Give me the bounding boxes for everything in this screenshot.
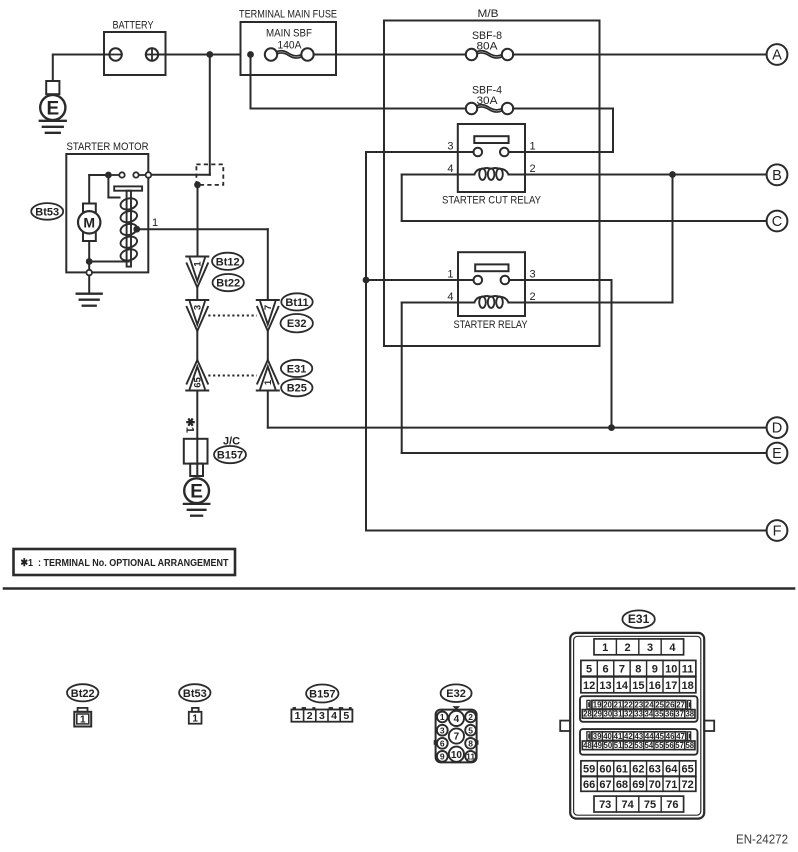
node connector F (767, 520, 788, 541)
svg-text:30: 30 (604, 710, 613, 719)
svg-text:15: 15 (632, 680, 644, 692)
M/B fuse box (384, 8, 600, 346)
svg-text:67: 67 (599, 779, 611, 791)
wire battery junction down to starter motor switch (152, 55, 210, 175)
svg-text:✱1 : TERMINAL No. OPTIONAL AR: ✱1 : TERMINAL No. OPTIONAL ARRANGEMENT (21, 557, 229, 569)
svg-text:51: 51 (614, 741, 623, 750)
wire starter relay pin 3 down to D line (509, 280, 611, 428)
svg-text:70: 70 (649, 779, 661, 791)
svg-text:52: 52 (624, 741, 633, 750)
svg-text:TERMINAL MAIN FUSE: TERMINAL MAIN FUSE (239, 9, 337, 21)
svg-text:5: 5 (343, 710, 349, 722)
svg-text:MAIN SBF: MAIN SBF (266, 28, 312, 40)
svg-text:6: 6 (440, 739, 445, 749)
label *1 rotated (184, 418, 196, 433)
node D branch (608, 424, 615, 431)
junction connector J/C B157 (184, 439, 208, 476)
svg-text:58: 58 (685, 741, 694, 750)
svg-text:3: 3 (447, 141, 453, 153)
svg-text:20: 20 (603, 701, 612, 710)
wire vertical bus down to connector F (365, 152, 367, 531)
node B branch (669, 171, 676, 178)
node connector E (767, 443, 788, 464)
svg-text:2: 2 (468, 712, 473, 722)
connector view Bt22 (67, 684, 98, 726)
svg-text:3: 3 (530, 269, 536, 281)
connector Bt11 triangle 3 (186, 300, 208, 331)
figure number EN-24272 (736, 832, 788, 847)
svg-text:A: A (772, 48, 782, 64)
svg-text:36: 36 (665, 710, 674, 719)
connector B25 triangle 1 (257, 360, 279, 391)
svg-text:5: 5 (586, 663, 592, 675)
svg-text:Bt22: Bt22 (71, 688, 95, 700)
svg-text:22: 22 (624, 701, 633, 710)
svg-text:C: C (772, 214, 782, 230)
svg-text:23: 23 (634, 701, 643, 710)
svg-text:11: 11 (682, 663, 694, 675)
svg-text:74: 74 (621, 799, 634, 811)
svg-text:B157: B157 (217, 450, 243, 462)
battery ground symbol E (40, 56, 66, 133)
svg-text:49: 49 (593, 741, 602, 750)
dotted connector link bottom (208, 375, 256, 377)
wire starter cut relay pin 4 to connector C (402, 175, 767, 222)
svg-text:8: 8 (468, 739, 473, 749)
svg-text:E: E (190, 482, 203, 503)
connector E31 triangle 65 (186, 360, 208, 391)
wire down to Bt12 connector (197, 185, 199, 257)
svg-text:1: 1 (530, 141, 536, 153)
relay starter cut relay (442, 124, 542, 207)
svg-text:61: 61 (616, 763, 628, 775)
connector Bt12/Bt22 triangle 1 (186, 257, 208, 288)
wire starter cut relay pin 3 to vertical bus (366, 151, 474, 153)
svg-text:E32: E32 (287, 318, 307, 330)
svg-text:66: 66 (583, 779, 595, 791)
node dashed connector junction (194, 181, 201, 188)
svg-text:41: 41 (614, 732, 623, 741)
wire main sbf output to SBF-8 (314, 54, 466, 56)
svg-text:Bt11: Bt11 (285, 297, 308, 309)
labels E31 B25 (281, 360, 313, 397)
svg-text:39: 39 (593, 732, 602, 741)
svg-text:38: 38 (685, 710, 694, 719)
solenoid coil spring (119, 197, 138, 263)
svg-text:7: 7 (619, 663, 625, 675)
svg-text:50: 50 (604, 741, 613, 750)
svg-text:75: 75 (644, 799, 656, 811)
svg-text:21: 21 (614, 701, 623, 710)
wire battery negative to ground (53, 54, 110, 56)
svg-text:1: 1 (193, 261, 204, 267)
svg-text:B157: B157 (309, 689, 335, 701)
svg-text:E: E (46, 99, 59, 120)
wire branch to SBF-4 (251, 55, 466, 109)
svg-text:34: 34 (645, 710, 654, 719)
svg-text:4: 4 (331, 710, 337, 722)
labels Bt12 Bt22 (212, 253, 244, 292)
svg-text:1: 1 (295, 710, 301, 722)
svg-text:2: 2 (625, 642, 631, 654)
fuse SBF-4 30A (466, 85, 513, 115)
wire F line (366, 530, 767, 532)
svg-text:63: 63 (649, 763, 661, 775)
svg-text:27: 27 (676, 701, 685, 710)
svg-text:53: 53 (634, 741, 643, 750)
svg-text:7: 7 (263, 305, 274, 310)
svg-text:9: 9 (440, 752, 445, 762)
svg-text:17: 17 (665, 680, 677, 692)
svg-text:62: 62 (632, 763, 644, 775)
wire between triangle pairs (197, 331, 267, 360)
labels Bt11 E32 (281, 293, 313, 332)
svg-text:14: 14 (616, 680, 629, 692)
svg-text:EN-24272: EN-24272 (736, 832, 788, 847)
node connector B (767, 164, 788, 185)
svg-text:26: 26 (666, 701, 675, 710)
motor M (78, 175, 108, 241)
node connector C (767, 211, 788, 232)
svg-text:Bt53: Bt53 (183, 688, 207, 700)
svg-text:8: 8 (635, 663, 641, 675)
svg-text:33: 33 (634, 710, 643, 719)
fuse SBF-8 80A (466, 30, 513, 60)
svg-text:3: 3 (193, 305, 204, 310)
svg-text:1: 1 (192, 713, 198, 724)
svg-text:35: 35 (655, 710, 664, 719)
svg-text:B25: B25 (287, 383, 307, 395)
connector view B157 (291, 685, 352, 723)
ground E under J/C (184, 478, 209, 515)
svg-text:40: 40 (603, 732, 612, 741)
svg-text:71: 71 (665, 779, 677, 791)
svg-text:54: 54 (645, 741, 654, 750)
svg-text:1: 1 (440, 712, 445, 722)
svg-text:55: 55 (655, 741, 664, 750)
svg-text:69: 69 (632, 779, 644, 791)
svg-text:65: 65 (193, 377, 204, 388)
labels J/C B157 (214, 436, 246, 464)
svg-text:25: 25 (655, 701, 664, 710)
svg-text:4: 4 (447, 291, 453, 303)
svg-text:1: 1 (602, 642, 608, 654)
wire switch to solenoid coil (108, 175, 119, 198)
svg-text:65: 65 (682, 763, 694, 775)
svg-text:1: 1 (80, 714, 86, 725)
svg-text:9: 9 (652, 663, 658, 675)
wire starter relay pin 1 from bus (366, 279, 474, 281)
svg-text:2: 2 (530, 163, 536, 175)
svg-text:29: 29 (593, 710, 602, 719)
svg-text:4: 4 (454, 714, 460, 725)
fuse MAIN SBF 140A (265, 48, 314, 60)
svg-text:E31: E31 (628, 612, 650, 626)
node battery junction (206, 51, 213, 58)
svg-text:32: 32 (624, 710, 633, 719)
svg-text:4: 4 (447, 163, 453, 175)
svg-text:M/B: M/B (478, 8, 499, 20)
svg-text:3: 3 (319, 710, 325, 722)
node connector A (767, 44, 788, 65)
svg-text:2: 2 (307, 710, 313, 722)
svg-text:28: 28 (583, 710, 592, 719)
svg-text:1: 1 (152, 217, 158, 229)
wire battery positive to terminal main fuse (158, 54, 240, 56)
svg-text:59: 59 (583, 763, 595, 775)
svg-text:12: 12 (583, 680, 595, 692)
wire SBF-4 to starter cut relay pin 1 (509, 109, 613, 153)
svg-text:Bt22: Bt22 (216, 278, 240, 290)
svg-text:10: 10 (665, 663, 677, 675)
svg-text:E31: E31 (287, 363, 307, 375)
svg-text:10: 10 (451, 750, 463, 761)
svg-text:STARTER CUT RELAY: STARTER CUT RELAY (442, 195, 542, 207)
node solenoid pin 1 (133, 226, 140, 233)
svg-text:46: 46 (666, 732, 675, 741)
svg-text:7: 7 (454, 732, 460, 743)
svg-text:Bt53: Bt53 (35, 206, 59, 218)
svg-text:37: 37 (675, 710, 684, 719)
svg-text:1: 1 (447, 269, 453, 281)
wire D line (268, 427, 767, 429)
svg-text:42: 42 (624, 732, 633, 741)
wire E31-65 down to J/C (196, 391, 198, 477)
svg-text:STARTER MOTOR: STARTER MOTOR (67, 141, 149, 153)
dashed optional connector (196, 164, 223, 185)
separator line (4, 587, 794, 590)
wire starter cut relay pin 2 to connector B (525, 174, 767, 176)
svg-text:68: 68 (616, 779, 628, 791)
node terminal main fuse junction (247, 51, 254, 58)
svg-text:B: B (772, 168, 782, 184)
svg-text:16: 16 (649, 680, 661, 692)
node starter relay pin1 branch (363, 277, 370, 284)
svg-text:44: 44 (645, 732, 654, 741)
svg-text:48: 48 (583, 741, 592, 750)
connector view E32 (434, 684, 479, 762)
svg-text:60: 60 (599, 763, 611, 775)
svg-text:✱1: ✱1 (184, 418, 196, 433)
svg-text:56: 56 (665, 741, 674, 750)
node connector D (767, 417, 788, 438)
svg-text:3: 3 (647, 642, 653, 654)
svg-text:24: 24 (645, 701, 654, 710)
label Bt53 (31, 203, 63, 220)
svg-text:57: 57 (675, 741, 684, 750)
svg-text:72: 72 (682, 779, 694, 791)
svg-text:D: D (772, 421, 782, 437)
svg-text:43: 43 (634, 732, 643, 741)
svg-text:STARTER RELAY: STARTER RELAY (454, 319, 529, 331)
svg-text:5: 5 (468, 725, 473, 735)
svg-text:11: 11 (466, 752, 475, 762)
svg-text:47: 47 (676, 732, 685, 741)
solenoid plunger T bar (114, 186, 142, 266)
svg-text:F: F (773, 524, 782, 540)
wire B25 down to D line (267, 391, 269, 428)
svg-text:18: 18 (682, 680, 694, 692)
svg-text:1: 1 (263, 379, 274, 385)
svg-text:M: M (83, 214, 95, 230)
wire motor bottom (86, 241, 129, 270)
battery (104, 20, 166, 76)
svg-text:4: 4 (669, 642, 676, 654)
svg-text:140A: 140A (278, 39, 303, 51)
dotted connector link top (208, 315, 256, 317)
starter motor switch contacts (105, 172, 151, 179)
svg-text:76: 76 (666, 799, 678, 811)
svg-text:E: E (772, 446, 782, 462)
connector view E31 (560, 610, 714, 818)
svg-text:31: 31 (614, 710, 623, 719)
svg-text:E32: E32 (446, 688, 466, 700)
svg-text:2: 2 (530, 291, 536, 303)
svg-text:Bt12: Bt12 (216, 256, 240, 268)
starter motor box (66, 141, 148, 272)
svg-text:13: 13 (599, 680, 611, 692)
relay starter relay (447, 252, 535, 331)
svg-text:45: 45 (655, 732, 664, 741)
wire B branch down to starter relay pin 2 (525, 175, 673, 303)
wire SBF-8 to connector A (513, 54, 766, 56)
connector E32 triangle 7 (257, 300, 279, 331)
svg-text:73: 73 (599, 799, 611, 811)
legend note box (14, 549, 236, 575)
wire starter relay pin 4 to connector E (402, 303, 767, 454)
svg-text:19: 19 (593, 701, 602, 710)
terminal main fuse box (239, 9, 337, 76)
connector view Bt53 (179, 684, 210, 724)
wire solenoid pin 1 out (label 1) (137, 217, 268, 300)
svg-text:3: 3 (440, 725, 445, 735)
svg-text:64: 64 (665, 763, 678, 775)
svg-text:BATTERY: BATTERY (113, 20, 155, 32)
starter motor case ground (77, 270, 102, 306)
wire between triangle 1 and 2 (196, 288, 198, 301)
svg-text:6: 6 (602, 663, 608, 675)
